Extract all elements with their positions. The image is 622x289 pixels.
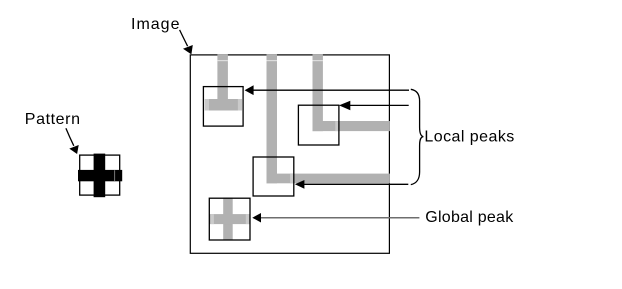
pointer line from Pattern label [66,128,74,146]
pattern box [80,155,120,195]
svg-text:Image: Image [131,16,180,33]
pattern black plus vertical bar [94,154,106,198]
image box (outer rectangle) [190,55,389,253]
arrow 4 to global peak box [252,213,419,223]
pointer line from Image label [180,30,188,46]
light bands under top border at bar crossings [217,60,323,61]
gray bar C horizontal (right elbow pattern) [313,121,390,131]
gray bar B horizontal (middle elbow pattern) [267,174,390,184]
svg-text:Local peaks: Local peaks [424,129,514,146]
local peak box 3 (center) [253,157,294,196]
label Image [131,16,180,33]
arrow 2 to local peak box 2 [339,101,409,110]
gray bar A horizontal (top-left T pattern) [205,99,242,111]
arrow 3 to local peak box 3 [295,180,408,189]
arrowhead of Pattern pointer [69,145,78,154]
label Local peaks [424,129,514,146]
curly brace for local peaks [411,89,424,184]
svg-text:Global peak: Global peak [425,209,514,226]
pattern black plus horizontal bar [78,170,122,181]
local peak box 2 (middle-right) [298,105,339,145]
gray bar A vertical (top-left T pattern) [217,54,228,110]
local peak box 1 (top-left) [203,87,243,127]
global peak box 4 (bottom-left) [209,198,250,240]
label Pattern [25,111,81,128]
label Global peak [425,209,514,226]
arrow 1 to local peak box 1 [245,85,409,95]
gray plus D vertical (global peak pattern) [223,198,233,241]
gray plus D horizontal (global peak pattern) [209,214,250,224]
gray bar C vertical (right elbow pattern) [313,54,323,131]
arrowhead of Image pointer [183,45,193,54]
gray bar B vertical (middle elbow pattern) [267,54,278,183]
svg-text:Pattern: Pattern [25,111,81,128]
